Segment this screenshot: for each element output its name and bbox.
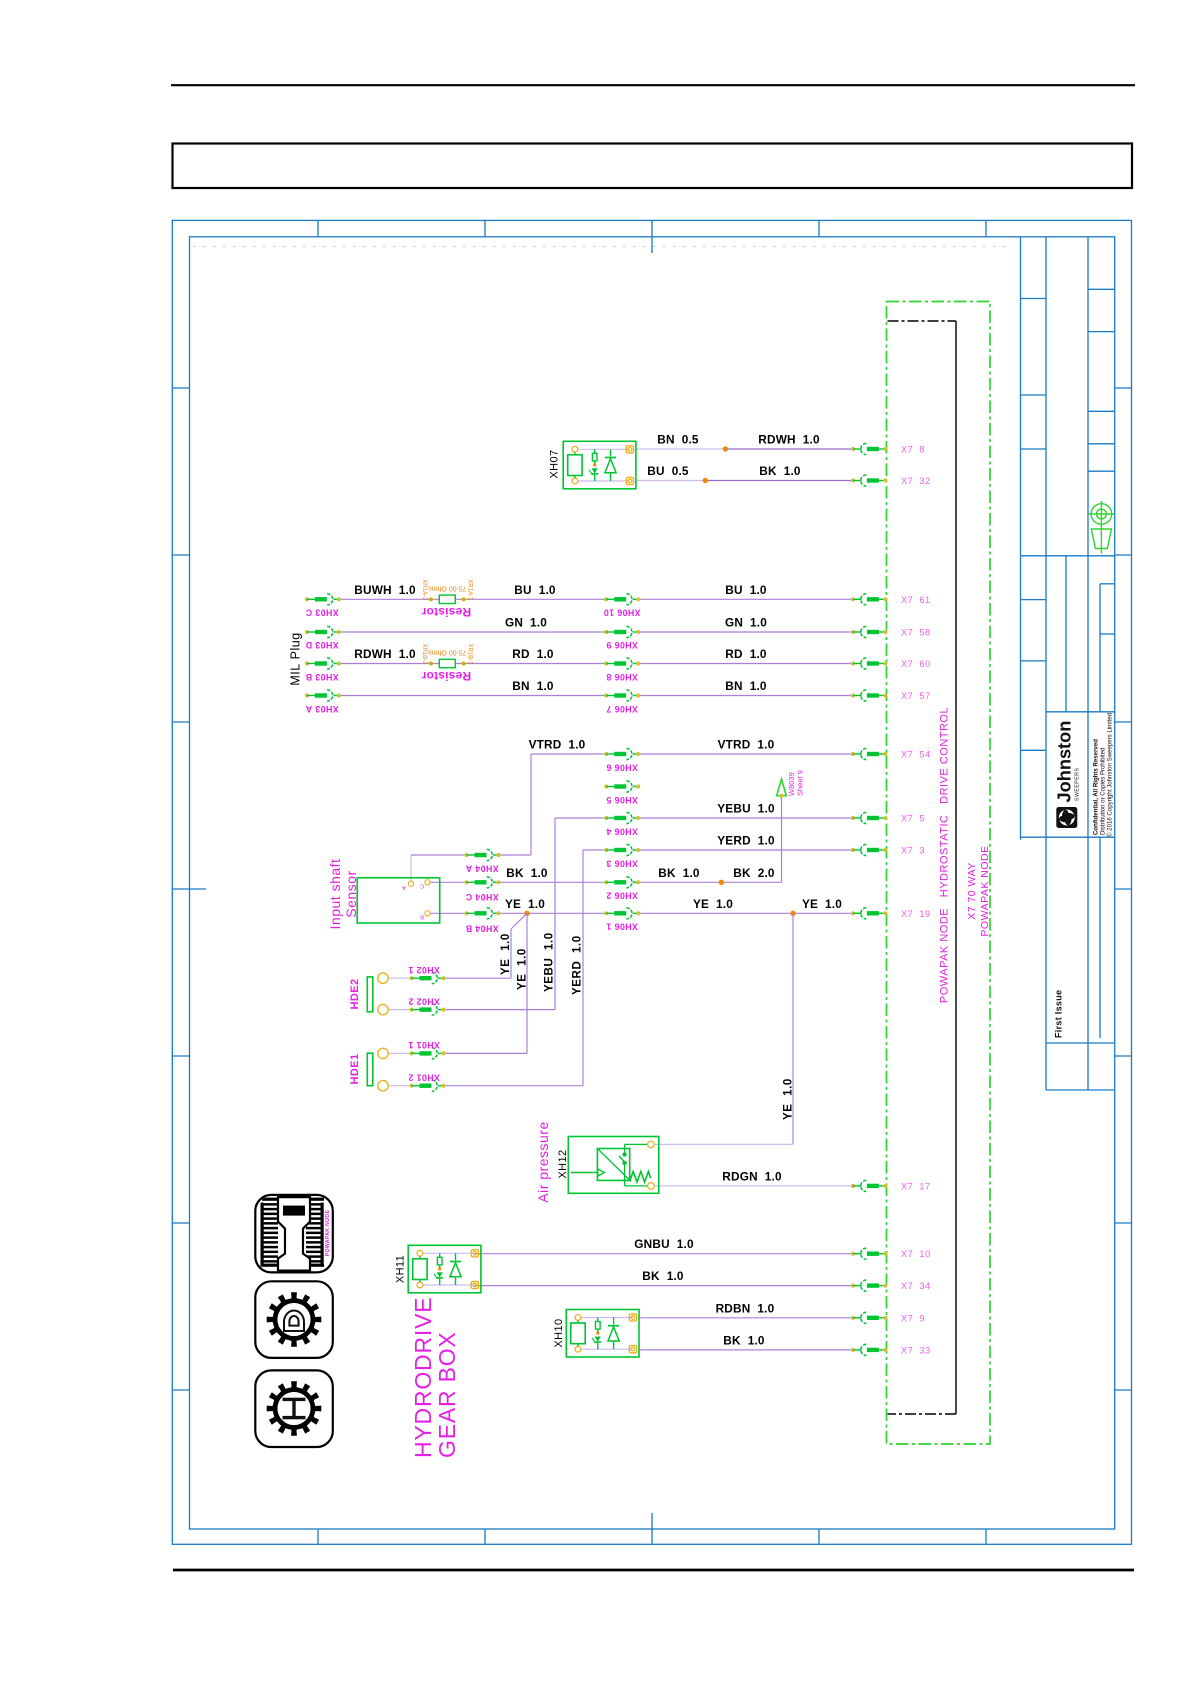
svg-text:XH10: XH10 <box>553 1318 565 1347</box>
svg-text:XH03 B: XH03 B <box>305 672 338 682</box>
svg-text:Air pressure: Air pressure <box>535 1121 551 1202</box>
svg-text:XH06 4: XH06 4 <box>606 827 638 837</box>
svg-text:XH03 C: XH03 C <box>305 608 338 618</box>
svg-text:Input shaft: Input shaft <box>327 859 343 930</box>
svg-text:© 2016 Copyright Johnston Swee: © 2016 Copyright Johnston Sweepers Limit… <box>1107 713 1114 837</box>
svg-text:X7 10: X7 10 <box>901 1249 931 1259</box>
svg-text:X7 57: X7 57 <box>901 691 931 701</box>
svg-text:BN 1.0: BN 1.0 <box>512 679 554 693</box>
svg-text:POWAPAK NODE: POWAPAK NODE <box>979 845 991 936</box>
svg-text:YEBU 1.0: YEBU 1.0 <box>544 932 556 992</box>
svg-text:X7 58: X7 58 <box>901 628 931 638</box>
svg-text:B: B <box>420 914 424 920</box>
svg-text:A: A <box>402 884 406 890</box>
svg-text:XH06 5: XH06 5 <box>606 795 638 805</box>
svg-text:RDGN 1.0: RDGN 1.0 <box>722 1169 782 1183</box>
svg-text:XH11: XH11 <box>395 1255 407 1283</box>
svg-text:XH06 7: XH06 7 <box>606 704 638 714</box>
svg-text:75.00 Ohms: 75.00 Ohms <box>428 649 467 656</box>
svg-text:XH04 C: XH04 C <box>465 892 498 902</box>
svg-text:BU 1.0: BU 1.0 <box>725 583 767 597</box>
svg-text:BU 1.0: BU 1.0 <box>514 583 556 597</box>
svg-text:XH07: XH07 <box>549 449 561 478</box>
svg-text:YERD 1.0: YERD 1.0 <box>572 935 584 995</box>
svg-text:XH06 9: XH06 9 <box>606 640 638 650</box>
svg-text:POWAPAK NODE: POWAPAK NODE <box>325 1210 331 1257</box>
svg-text:BK 1.0: BK 1.0 <box>506 866 548 880</box>
svg-text:BK 1.0: BK 1.0 <box>658 866 700 880</box>
svg-text:GN 1.0: GN 1.0 <box>505 616 547 630</box>
svg-text:XH06 2: XH06 2 <box>606 891 638 901</box>
svg-text:GEAR BOX: GEAR BOX <box>434 1331 460 1458</box>
svg-text:X7 19: X7 19 <box>901 909 931 919</box>
svg-text:XH06 10: XH06 10 <box>603 608 640 618</box>
svg-text:BU 0.5: BU 0.5 <box>647 464 689 478</box>
svg-text:XH01 2: XH01 2 <box>408 1073 440 1083</box>
svg-text:Resistor: Resistor <box>421 605 471 619</box>
svg-text:XR1B-2: XR1B-2 <box>421 644 427 666</box>
svg-text:YE 1.0: YE 1.0 <box>517 948 529 990</box>
svg-text:MIL Plug: MIL Plug <box>289 632 303 685</box>
svg-text:XH06 8: XH06 8 <box>606 672 638 682</box>
svg-text:BN 0.5: BN 0.5 <box>657 433 699 447</box>
svg-text:YEBU 1.0: YEBU 1.0 <box>717 802 775 816</box>
svg-text:X7 60: X7 60 <box>901 659 931 669</box>
svg-text:GN 1.0: GN 1.0 <box>725 616 767 630</box>
svg-text:Sensor: Sensor <box>343 870 359 917</box>
svg-text:X7 54: X7 54 <box>901 750 931 760</box>
svg-text:X7 3: X7 3 <box>901 846 925 856</box>
svg-text:BN 1.0: BN 1.0 <box>725 679 767 693</box>
svg-text:GNBU 1.0: GNBU 1.0 <box>634 1237 694 1251</box>
svg-text:XR1B-1: XR1B-1 <box>466 644 472 666</box>
svg-text:X7 8: X7 8 <box>901 445 925 455</box>
svg-text:BK 1.0: BK 1.0 <box>642 1269 684 1283</box>
svg-text:XH12: XH12 <box>557 1149 569 1178</box>
svg-text:X7 70 WAY: X7 70 WAY <box>966 862 978 920</box>
svg-text:First Issue: First Issue <box>1054 990 1064 1038</box>
svg-text:YE 1.0: YE 1.0 <box>505 897 545 911</box>
svg-text:Johnston: Johnston <box>1055 721 1075 803</box>
svg-text:RDBN 1.0: RDBN 1.0 <box>716 1301 775 1315</box>
svg-text:75.00 Ohms: 75.00 Ohms <box>428 584 467 591</box>
svg-text:YE 1.0: YE 1.0 <box>783 1078 795 1120</box>
svg-text:C: C <box>420 883 424 889</box>
svg-text:XH01 1: XH01 1 <box>408 1040 440 1050</box>
svg-text:BK 2.0: BK 2.0 <box>733 866 775 880</box>
svg-text:BK 1.0: BK 1.0 <box>723 1333 765 1347</box>
svg-text:YE 1.0: YE 1.0 <box>500 933 512 975</box>
svg-text:VTRD 1.0: VTRD 1.0 <box>529 738 586 752</box>
svg-text:Confidential, All Rights Reser: Confidential, All Rights Reserved <box>1093 739 1100 835</box>
svg-text:HDE1: HDE1 <box>349 1054 361 1085</box>
svg-text:BUWH 1.0: BUWH 1.0 <box>354 583 416 597</box>
svg-text:YE 1.0: YE 1.0 <box>802 897 842 911</box>
svg-text:X7 61: X7 61 <box>901 595 931 605</box>
svg-text:X7 34: X7 34 <box>901 1281 931 1291</box>
svg-text:X7 5: X7 5 <box>901 814 925 824</box>
svg-text:XH06 1: XH06 1 <box>606 922 638 932</box>
svg-text:XH06 3: XH06 3 <box>606 859 638 869</box>
svg-text:Distribution or Copies Prohibi: Distribution or Copies Prohibited <box>1100 748 1107 835</box>
svg-text:XH03 D: XH03 D <box>305 640 338 650</box>
svg-text:XH03 A: XH03 A <box>305 704 338 714</box>
svg-text:XR1A-2: XR1A-2 <box>421 579 427 601</box>
svg-text:Resistor: Resistor <box>421 669 471 683</box>
svg-text:XR1A-1: XR1A-1 <box>466 579 472 601</box>
svg-text:SWEEPERS: SWEEPERS <box>1074 768 1080 801</box>
svg-text:YE 1.0: YE 1.0 <box>693 897 733 911</box>
svg-text:HYDRODRIVE: HYDRODRIVE <box>410 1297 436 1458</box>
svg-text:XH04 A: XH04 A <box>465 864 498 874</box>
svg-text:XH02 1: XH02 1 <box>408 965 440 975</box>
svg-text:VTRD 1.0: VTRD 1.0 <box>718 738 775 752</box>
svg-text:POWAPAK NODE HYDROSTATIC D: POWAPAK NODE HYDROSTATIC DRIVE CONTROL <box>939 707 951 1003</box>
svg-text:XH04 B: XH04 B <box>465 924 498 934</box>
svg-text:RD 1.0: RD 1.0 <box>725 647 767 661</box>
svg-text:YERD 1.0: YERD 1.0 <box>717 834 775 848</box>
svg-text:RDWH 1.0: RDWH 1.0 <box>758 433 820 447</box>
svg-text:X7 32: X7 32 <box>901 476 931 486</box>
svg-text:XH02 2: XH02 2 <box>408 997 440 1007</box>
svg-text:Sheet 9: Sheet 9 <box>796 770 805 796</box>
svg-text:HDE2: HDE2 <box>349 979 361 1010</box>
svg-text:RDWH 1.0: RDWH 1.0 <box>354 647 416 661</box>
svg-text:XH06 6: XH06 6 <box>606 763 638 773</box>
svg-text:RD 1.0: RD 1.0 <box>512 647 554 661</box>
svg-text:X7 33: X7 33 <box>901 1345 931 1355</box>
svg-text:BK 1.0: BK 1.0 <box>759 464 801 478</box>
svg-text:X7 17: X7 17 <box>901 1181 931 1191</box>
svg-text:X7 9: X7 9 <box>901 1313 925 1323</box>
